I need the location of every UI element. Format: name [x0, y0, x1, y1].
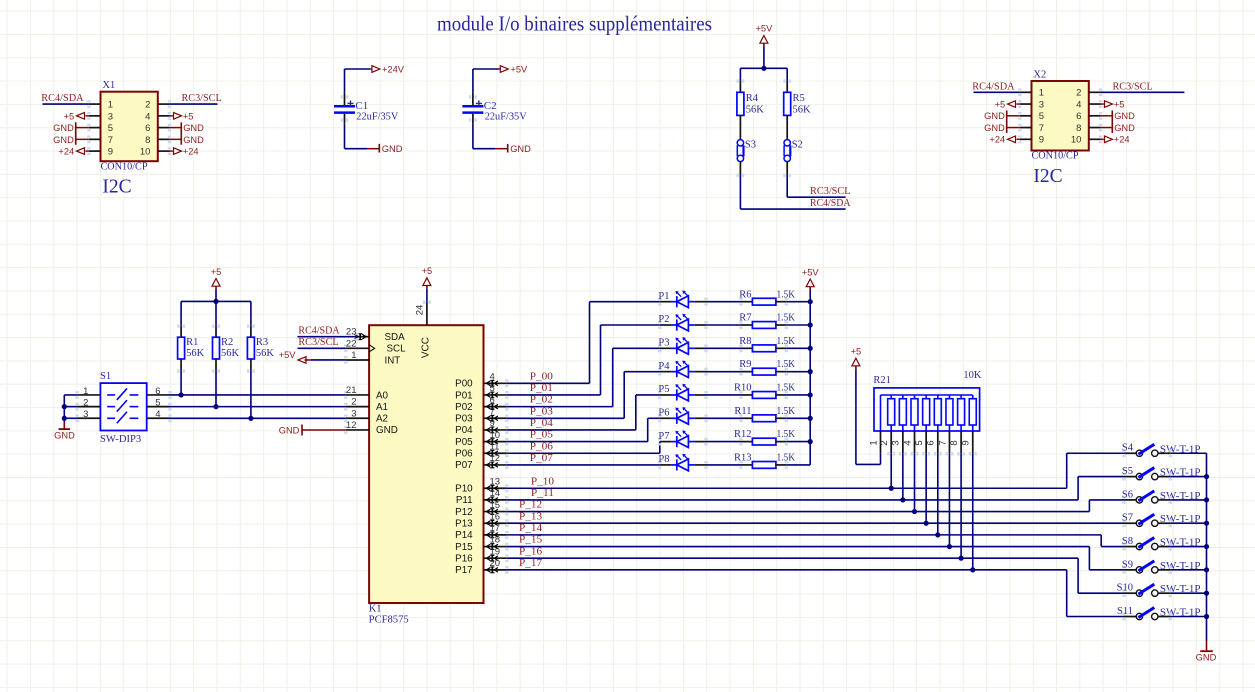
svg-text:R13: R13	[734, 453, 752, 464]
svg-text:P11: P11	[456, 495, 473, 506]
LED P6	[660, 417, 672, 419]
svg-text:S8: S8	[1122, 536, 1133, 547]
wire R21 pin 2 down to P_10	[890, 453, 892, 488]
junction node R12/+5V bus	[808, 439, 813, 444]
wire S1 pin 1 to left bus	[64, 394, 77, 396]
wire R12 to +5V bus	[786, 441, 810, 443]
svg-text:P_01: P_01	[530, 383, 553, 394]
LED P3	[660, 347, 672, 349]
svg-text:56K: 56K	[746, 104, 765, 115]
svg-text:P15: P15	[455, 542, 473, 553]
R21 element 3	[902, 395, 904, 399]
R21 pin 8	[960, 425, 962, 431]
svg-text:R4: R4	[746, 93, 759, 104]
svg-text:6: 6	[1076, 111, 1081, 122]
power port GND at K1 pin 12	[302, 429, 346, 431]
R21 pin 7	[948, 425, 950, 431]
svg-text:P_03: P_03	[530, 406, 553, 417]
switch S11 SW-T-1P	[1124, 616, 1136, 618]
wire S5 to GND bus	[1158, 476, 1170, 478]
S1 pin 4	[147, 417, 170, 419]
svg-text:2: 2	[145, 100, 150, 111]
R21 pin 5	[925, 425, 927, 431]
power port +24 right of X1	[169, 150, 172, 152]
svg-text:1: 1	[108, 100, 113, 111]
LED P4	[660, 371, 672, 373]
svg-text:INT: INT	[385, 355, 401, 366]
svg-text:5: 5	[1039, 111, 1044, 122]
svg-text:CON10/CP: CON10/CP	[1032, 151, 1079, 162]
power port GND below C2	[495, 148, 507, 150]
svg-text:GND: GND	[1114, 111, 1135, 121]
svg-text:CON10/CP: CON10/CP	[101, 161, 148, 172]
svg-text:P_12: P_12	[519, 500, 542, 511]
svg-text:P_00: P_00	[530, 371, 553, 382]
wire LED P2 to R7	[695, 324, 706, 326]
svg-text:VCC: VCC	[420, 337, 431, 358]
switch S1 SW-DIP3 body	[100, 383, 146, 430]
wire A1 net: S1 pin 5 to K1	[170, 406, 346, 408]
svg-text:R7: R7	[739, 313, 751, 324]
R21 pin 2	[890, 425, 892, 431]
X1 pin 1	[89, 103, 101, 105]
svg-text:P12: P12	[455, 507, 472, 518]
wire LED P7 to R12	[695, 441, 706, 443]
svg-text:4: 4	[145, 111, 150, 122]
K1 pin 15 P12	[484, 511, 507, 513]
resistor network R21 10K body	[874, 388, 980, 431]
X2 pin 5	[1020, 115, 1032, 117]
X1 pin 6	[158, 127, 170, 129]
X1 pin 3	[89, 115, 101, 117]
svg-text:+5V: +5V	[755, 24, 773, 34]
switch S7 SW-T-1P	[1124, 522, 1136, 524]
svg-text:3: 3	[351, 408, 356, 419]
svg-text:RC3/SCL: RC3/SCL	[810, 186, 851, 197]
svg-text:P13: P13	[455, 519, 473, 530]
K1 pin 22 SCL	[346, 347, 369, 349]
svg-text:10: 10	[490, 430, 501, 441]
svg-text:7: 7	[108, 135, 113, 146]
resistor R8 1.5K	[741, 347, 752, 349]
svg-text:1: 1	[351, 350, 356, 361]
switch S3 (vertical SPST)	[737, 140, 743, 146]
K1 pin 5 P01	[484, 394, 507, 396]
junction node S9/GND bus	[1204, 567, 1209, 572]
svg-text:5: 5	[108, 123, 113, 134]
resistor R13 1.5K	[741, 464, 752, 466]
svg-text:+24: +24	[183, 147, 199, 157]
wire R5 top	[786, 68, 788, 80]
power port GND below C1	[367, 148, 379, 150]
K1 pin 17 P14	[484, 534, 507, 536]
svg-text:9: 9	[1039, 135, 1044, 146]
K1 pin 19 P16	[484, 557, 507, 559]
K1 pin 20 P17	[484, 569, 507, 571]
junction node S1 pin2/bus	[62, 404, 67, 409]
S1 pin 2	[77, 406, 100, 408]
plus mark of C2	[476, 102, 482, 104]
ground GND below S1 bus	[63, 422, 65, 430]
svg-text:GND: GND	[376, 425, 398, 436]
wire net RC3/SCL to K1	[298, 347, 346, 349]
X1 pin 7	[89, 138, 101, 140]
wire net P_12 from K1 to S6	[507, 511, 1090, 513]
svg-text:9: 9	[490, 418, 495, 429]
svg-text:I2C: I2C	[102, 177, 131, 198]
wire net RC4/SDA at X2 pin 1	[974, 91, 1020, 93]
svg-text:18: 18	[490, 535, 501, 546]
wire R21 pin 9 down to P_17	[972, 453, 974, 570]
svg-text:13: 13	[490, 476, 501, 487]
svg-text:P_14: P_14	[519, 523, 543, 534]
wire left bus of S1	[63, 395, 65, 422]
svg-text:12: 12	[346, 420, 357, 431]
svg-text:P_02: P_02	[530, 395, 553, 406]
K1 pin 10 P05	[484, 441, 507, 443]
wire LED P4 to R9	[695, 371, 706, 373]
power port +24 right of X2	[1100, 138, 1103, 140]
resistor R10 1.5K	[741, 394, 752, 396]
junction node R21 pin 7/P_15	[947, 544, 952, 549]
svg-text:S2: S2	[792, 140, 803, 151]
svg-text:8: 8	[145, 135, 150, 146]
svg-text:+5: +5	[422, 266, 433, 276]
svg-text:S11: S11	[1117, 606, 1133, 617]
power port GND right of X1 (pins 6,8)	[169, 127, 181, 129]
svg-text:S7: S7	[1122, 513, 1133, 524]
wire S1 pin 2 to left bus	[64, 406, 77, 408]
svg-text:A2: A2	[376, 414, 388, 425]
resistor R2 56K	[215, 301, 217, 325]
svg-text:4: 4	[1076, 99, 1081, 110]
junction node R3/A2	[248, 416, 253, 421]
svg-text:P1: P1	[658, 291, 669, 302]
power port +5 left of X2	[1017, 103, 1020, 105]
R21 element 5	[925, 395, 927, 399]
svg-text:1.5K: 1.5K	[777, 336, 796, 347]
svg-text:1: 1	[83, 386, 88, 397]
svg-text:1: 1	[868, 440, 879, 445]
svg-text:+5V: +5V	[510, 64, 528, 74]
R21 pin 3	[902, 425, 904, 431]
svg-text:6: 6	[926, 440, 937, 445]
svg-text:PCF8575: PCF8575	[369, 615, 409, 626]
svg-text:1.5K: 1.5K	[777, 453, 796, 464]
LED P2 emission arrows	[677, 316, 681, 320]
X1 pin 2	[158, 103, 170, 105]
resistor R9 1.5K	[741, 371, 752, 373]
svg-text:15: 15	[490, 500, 501, 511]
wire R21 pin 6 down to P_14	[937, 453, 939, 535]
svg-text:21: 21	[346, 385, 357, 396]
wire LED P6 to R11	[695, 417, 706, 419]
svg-text:6: 6	[145, 123, 150, 134]
svg-text:P07: P07	[455, 460, 472, 471]
wire R13 to +5V bus	[786, 464, 810, 466]
junction node R10/+5V bus	[808, 392, 813, 397]
wire net RC3/SCL at X2 pin 2	[1100, 91, 1184, 93]
svg-text:+24V: +24V	[382, 64, 405, 74]
K1 pin 2 A1	[346, 406, 369, 408]
K1 pin 3 A2	[346, 417, 369, 419]
resistor R6 1.5K	[741, 301, 752, 303]
wire LED P3 to R8	[695, 347, 706, 349]
resistor R5 56K	[786, 81, 788, 93]
svg-text:R11: R11	[734, 406, 751, 417]
junction node R21 pin 9/P_17	[970, 567, 975, 572]
svg-text:56K: 56K	[793, 104, 812, 115]
wire S1 pin 3 to left bus	[64, 417, 77, 419]
svg-text:24: 24	[415, 305, 426, 316]
svg-text:I2C: I2C	[1033, 166, 1062, 187]
wire +5V bus (R6..R13)	[809, 290, 811, 465]
svg-text:7: 7	[937, 440, 948, 445]
svg-text:22: 22	[346, 338, 357, 349]
R21 common bus	[881, 394, 973, 396]
svg-text:K1: K1	[369, 604, 382, 615]
power port GND right of X2 (pins 6,8)	[1100, 115, 1112, 117]
S1 pin 1	[77, 394, 100, 396]
svg-text:S4: S4	[1122, 443, 1134, 454]
junction node S7/GND bus	[1204, 521, 1209, 526]
svg-text:R5: R5	[793, 93, 805, 104]
power port +5V at INT	[311, 359, 346, 361]
junction node +5/R2	[213, 299, 218, 304]
wire +5 to R21 pin1	[855, 369, 857, 464]
capacitor C1 22uF/35V (polarized)	[344, 92, 346, 105]
svg-text:17: 17	[490, 523, 501, 534]
wire R4 top	[739, 68, 741, 80]
svg-text:SW-DIP3: SW-DIP3	[100, 434, 141, 445]
svg-text:GND: GND	[54, 431, 75, 441]
junction node R21 pin 6/P_14	[935, 532, 940, 537]
wire S6 to GND bus	[1158, 499, 1170, 501]
K1 pin 21 A0	[346, 394, 369, 396]
resistor R1 56K	[180, 301, 182, 325]
svg-text:R6: R6	[739, 289, 751, 300]
svg-text:+5: +5	[995, 99, 1006, 109]
svg-text:P_06: P_06	[530, 441, 553, 452]
junction node R8/+5V bus	[808, 346, 813, 351]
svg-text:10K: 10K	[963, 370, 982, 381]
junction node R21 pin 3/P_11	[900, 497, 905, 502]
wire net P_15 from K1 to S9	[507, 546, 1090, 548]
power port +5 right of X1	[169, 115, 172, 117]
wire net P_07 from K1 to LED P8	[507, 464, 660, 466]
wire R21 pin 8 down to P_16	[960, 453, 962, 558]
svg-text:10: 10	[1071, 135, 1082, 146]
svg-text:+5: +5	[851, 347, 862, 357]
svg-text:RC4/SDA: RC4/SDA	[41, 93, 84, 104]
svg-text:P10: P10	[455, 484, 473, 495]
svg-text:P_17: P_17	[519, 558, 542, 569]
LED P7	[660, 441, 672, 443]
svg-text:+24: +24	[1114, 135, 1130, 145]
resistor R12 1.5K	[741, 441, 752, 443]
LED P5	[660, 394, 672, 396]
wire R3 bottom to A2 net	[250, 371, 252, 419]
svg-text:7: 7	[490, 406, 495, 417]
svg-text:2: 2	[351, 397, 356, 408]
svg-text:GND: GND	[183, 135, 204, 145]
svg-text:P7: P7	[658, 431, 669, 442]
K1 pin 13 P10	[484, 487, 507, 489]
junction node S10/GND bus	[1204, 591, 1209, 596]
capacitor C2 22uF/35V (polarized)	[472, 92, 474, 105]
K1 pin 12 P07	[484, 464, 507, 466]
junction node S8/GND bus	[1204, 544, 1209, 549]
svg-text:P17: P17	[455, 565, 472, 576]
X2 pin 8	[1089, 127, 1101, 129]
svg-text:GND: GND	[53, 135, 74, 145]
svg-text:R21: R21	[873, 375, 891, 386]
LED P8 emission arrows	[677, 456, 681, 460]
X1 pin 9	[89, 150, 101, 152]
junction node S6/GND bus	[1204, 497, 1209, 502]
svg-text:8: 8	[1076, 123, 1081, 134]
svg-text:11: 11	[490, 441, 500, 452]
svg-text:P14: P14	[455, 530, 473, 541]
X1 pin 10	[158, 150, 170, 152]
junction node R21 pin 4/P_12	[912, 509, 917, 514]
svg-text:P_11: P_11	[531, 488, 554, 499]
svg-text:P5: P5	[658, 384, 669, 395]
K1 pin 24 VCC	[426, 302, 428, 326]
svg-text:1.5K: 1.5K	[777, 429, 796, 440]
wire net P_16 from K1 to S10	[507, 557, 1078, 559]
svg-text:RC4/SDA: RC4/SDA	[298, 325, 340, 336]
X1 pin 4	[158, 115, 170, 117]
junction node at +5V/R4/R5	[761, 66, 766, 71]
K1 pin 12 GND	[346, 429, 369, 431]
X1 pin 8	[158, 138, 170, 140]
svg-text:2: 2	[879, 440, 890, 445]
wire R6 to +5V bus	[786, 301, 810, 303]
svg-text:P_10: P_10	[531, 476, 554, 487]
svg-text:R12: R12	[734, 429, 752, 440]
svg-text:GND: GND	[279, 425, 300, 435]
wire net RC4/SDA to K1	[298, 336, 358, 338]
R21 element 2	[890, 395, 892, 399]
K1 pin 9 P04	[484, 429, 507, 431]
svg-text:P_13: P_13	[519, 511, 542, 522]
X1 pin 5	[89, 127, 101, 129]
wire R21 pin 4 down to P_12	[914, 453, 916, 511]
svg-text:3: 3	[1039, 99, 1044, 110]
svg-text:P_15: P_15	[519, 535, 542, 546]
resistor R3 56K	[250, 301, 252, 325]
wire S7 to GND bus	[1158, 522, 1170, 524]
X2 pin 7	[1020, 127, 1032, 129]
svg-text:GND: GND	[984, 111, 1005, 121]
K1 pin 11 P06	[484, 452, 507, 454]
svg-text:S10: S10	[1117, 583, 1133, 594]
X2 pin 9	[1020, 138, 1032, 140]
svg-text:+5: +5	[183, 111, 194, 121]
LED P4 emission arrows	[677, 363, 681, 367]
svg-text:22uF/35V: 22uF/35V	[356, 112, 398, 123]
svg-text:1.5K: 1.5K	[777, 313, 796, 324]
wire +5 to K1 VCC	[426, 289, 428, 302]
svg-text:X2: X2	[1033, 69, 1046, 80]
X2 pin 10	[1089, 138, 1101, 140]
svg-text:P6: P6	[658, 407, 669, 418]
junction node R21 pin 5/P_13	[924, 521, 929, 526]
wire net P_00 from K1 to LED P1	[507, 382, 590, 384]
svg-text:2: 2	[1076, 88, 1081, 99]
junction node R21 pin 2/P_10	[889, 486, 894, 491]
svg-text:R10: R10	[734, 383, 752, 394]
wire R21 pin 3 down to P_11	[902, 453, 904, 500]
R21 pin 6	[937, 425, 939, 431]
svg-text:16: 16	[490, 511, 501, 522]
S1 pole 1 symbol	[107, 394, 115, 396]
LED P2	[660, 324, 672, 326]
K1 pin 4 P00	[484, 382, 507, 384]
LED P1 emission arrows	[677, 293, 681, 297]
svg-text:RC4/SDA: RC4/SDA	[810, 198, 851, 209]
wire R2 bottom to A1 net	[215, 371, 217, 407]
junction node R1/A0	[179, 392, 184, 397]
svg-text:R2: R2	[221, 337, 233, 348]
resistor R4 56K	[739, 81, 741, 93]
R21 pin 4	[914, 425, 916, 431]
wire LED P5 to R10	[695, 394, 706, 396]
junction node R11/+5V bus	[808, 416, 813, 421]
svg-text:RC3/SCL: RC3/SCL	[1113, 81, 1153, 92]
svg-text:S1: S1	[100, 371, 111, 382]
switch S10 SW-T-1P	[1124, 592, 1136, 594]
svg-text:5: 5	[155, 397, 160, 408]
svg-text:P2: P2	[658, 314, 669, 325]
svg-text:4: 4	[155, 409, 160, 420]
LED P6 emission arrows	[677, 409, 681, 413]
svg-text:GND: GND	[984, 123, 1005, 133]
wire C1 bottom	[344, 124, 346, 149]
power port +5 left of X1	[86, 115, 89, 117]
wire R8 to +5V bus	[786, 347, 810, 349]
svg-text:4: 4	[902, 440, 913, 445]
X2 pin 3	[1020, 103, 1032, 105]
svg-text:22uF/35V: 22uF/35V	[485, 112, 527, 123]
power port +5 right of X2	[1100, 103, 1103, 105]
svg-text:12: 12	[490, 453, 501, 464]
connector X1 body	[101, 92, 158, 162]
svg-text:1.5K: 1.5K	[777, 359, 796, 370]
junction node R2/A1	[213, 404, 218, 409]
junction node R21 pin 8/P_16	[959, 556, 964, 561]
svg-text:P01: P01	[455, 390, 472, 401]
S1 pin 6	[147, 394, 170, 396]
svg-text:GND: GND	[1114, 123, 1135, 133]
svg-text:RC3/SCL: RC3/SCL	[182, 93, 222, 104]
wire net P_14 from K1 to S8	[507, 534, 1101, 536]
svg-text:SDA: SDA	[385, 332, 406, 343]
svg-text:1.5K: 1.5K	[777, 383, 796, 394]
svg-text:+24: +24	[58, 147, 74, 157]
svg-text:P06: P06	[455, 449, 473, 460]
wire net P_10 from K1 to S4	[507, 487, 1067, 489]
K1 pin 6 P02	[484, 406, 507, 408]
S1 pole 3 symbol	[107, 417, 115, 419]
svg-text:1.5K: 1.5K	[777, 406, 796, 417]
wire +5 down to R1/R2/R3 bus	[215, 290, 217, 302]
svg-text:5: 5	[490, 383, 495, 394]
wire S10 to GND bus	[1158, 592, 1170, 594]
power port GND left of X2 (pins 5,7)	[1007, 115, 1020, 117]
switch S5 SW-T-1P	[1124, 476, 1136, 478]
